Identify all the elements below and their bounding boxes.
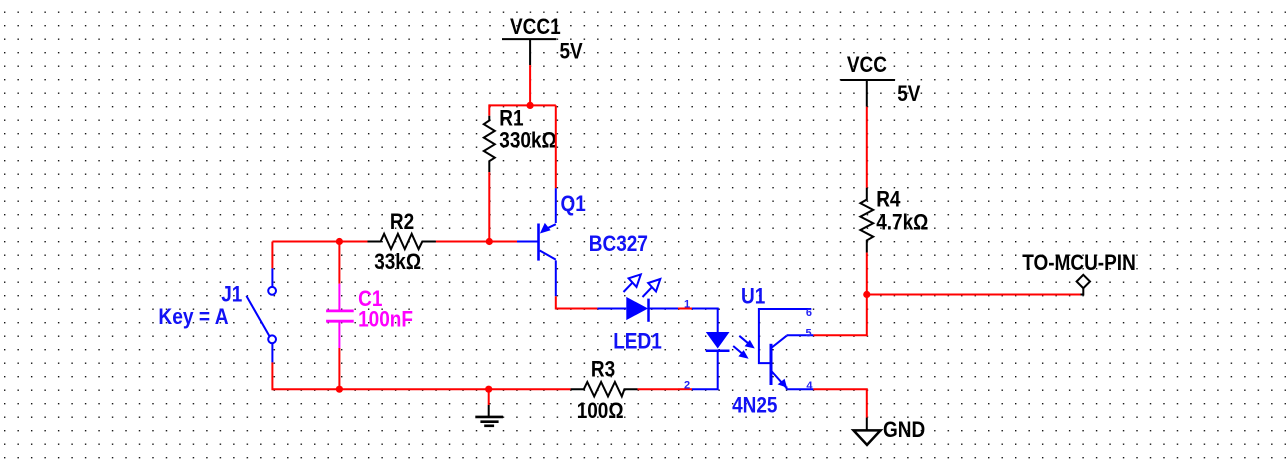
svg-text:1: 1 [684, 299, 690, 311]
svg-text:VCC1: VCC1 [510, 14, 561, 39]
ground earth symbol [475, 405, 503, 426]
U1 emitter arrow [778, 379, 787, 388]
wire J1 bottom [271, 362, 273, 390]
LED1 light arrow 1 [624, 274, 641, 292]
wire C1 top [338, 242, 340, 284]
node junction ground [485, 386, 492, 393]
wire top horizontal [489, 104, 556, 106]
optocoupler U1 internal LED [706, 332, 730, 349]
svg-text:4N25: 4N25 [732, 393, 777, 418]
LED LED1 [626, 297, 648, 320]
LED1 light arrow 2 [643, 279, 661, 297]
svg-text:6: 6 [806, 307, 812, 319]
wire Q1 collector down [555, 260, 557, 296]
wire Q1 base stub [517, 241, 538, 243]
wire R3 to U1 pin2 red [638, 388, 678, 390]
node junction C1 top [336, 238, 343, 245]
svg-text:R4: R4 [876, 187, 901, 212]
svg-text:100Ω: 100Ω [577, 398, 624, 423]
svg-text:LED1: LED1 [613, 329, 662, 354]
svg-text:GND: GND [883, 417, 925, 442]
svg-text:5V: 5V [897, 81, 920, 106]
U1 light arrow 2 [733, 346, 747, 358]
node junction MCU [863, 291, 870, 298]
svg-text:VCC: VCC [847, 52, 887, 77]
svg-text:4.7kΩ: 4.7kΩ [876, 210, 928, 235]
wire J1 top [271, 242, 273, 269]
wire to LED1 [597, 308, 626, 310]
resistor R3 [571, 382, 638, 396]
svg-text:J1: J1 [221, 282, 242, 307]
svg-text:5: 5 [806, 328, 812, 340]
capacitor C1 [326, 284, 354, 348]
svg-text:33kΩ: 33kΩ [374, 249, 421, 274]
wire bottom row [272, 388, 570, 390]
svg-text:Key = A: Key = A [158, 304, 228, 329]
wire to ground [488, 389, 490, 405]
node junction VCC1 [527, 102, 534, 109]
wire R4 to node [866, 253, 868, 295]
U1 phototransistor [771, 335, 813, 389]
wire pin5 to node [813, 295, 866, 336]
wire pin4 to GND [813, 389, 866, 417]
wire LED1 to U1 [649, 308, 679, 310]
node junction C1 bottom [336, 386, 343, 393]
wire VCC down [866, 107, 868, 188]
power symbol VCC [841, 80, 896, 107]
svg-text:Q1: Q1 [561, 191, 586, 216]
svg-text:R2: R2 [390, 209, 414, 234]
connector TO-MCU-PIN [1081, 288, 1084, 294]
transistor Q1 [539, 224, 556, 261]
svg-text:5V: 5V [560, 39, 583, 64]
wire to R1 top [488, 104, 490, 115]
svg-text:4: 4 [806, 380, 813, 392]
node junction R1/R2/base [486, 238, 493, 245]
svg-text:BC327: BC327 [589, 231, 648, 256]
wire node to connector [867, 294, 1081, 296]
wire Q1 emitter stub [555, 188, 557, 223]
ground GND symbol [866, 418, 868, 431]
svg-text:U1: U1 [741, 284, 765, 309]
wire collector to LED red [556, 296, 598, 308]
pin stub U1 pin2 [678, 388, 692, 390]
wire VCC1 down [529, 65, 531, 105]
wire R2 right to base node [436, 241, 517, 243]
svg-text:TO-MCU-PIN: TO-MCU-PIN [1022, 250, 1136, 275]
wire R1 bottom to base node [488, 172, 490, 242]
svg-text:330kΩ: 330kΩ [499, 128, 557, 153]
svg-text:R3: R3 [591, 357, 615, 382]
resistor R4 [860, 188, 873, 253]
resistor R1 [484, 116, 495, 172]
pin stub U1 pin1 [678, 308, 692, 310]
U1 phototransistor base lead pin6 [759, 309, 811, 363]
svg-text:2: 2 [684, 380, 690, 392]
resistor R2 [368, 234, 436, 249]
power symbol VCC1 [502, 39, 556, 65]
wire C1 bottom [338, 348, 340, 389]
wire into U1 pin1 [692, 309, 718, 333]
Q1 emitter arrow [540, 223, 551, 234]
wire base row red [272, 241, 367, 243]
switch J1 [246, 268, 276, 362]
wire emitter branch vertical [555, 105, 557, 188]
svg-text:100nF: 100nF [358, 307, 413, 332]
wire U1 LED cathode to pin2 [692, 351, 718, 389]
U1 light arrow 1 [739, 336, 754, 348]
